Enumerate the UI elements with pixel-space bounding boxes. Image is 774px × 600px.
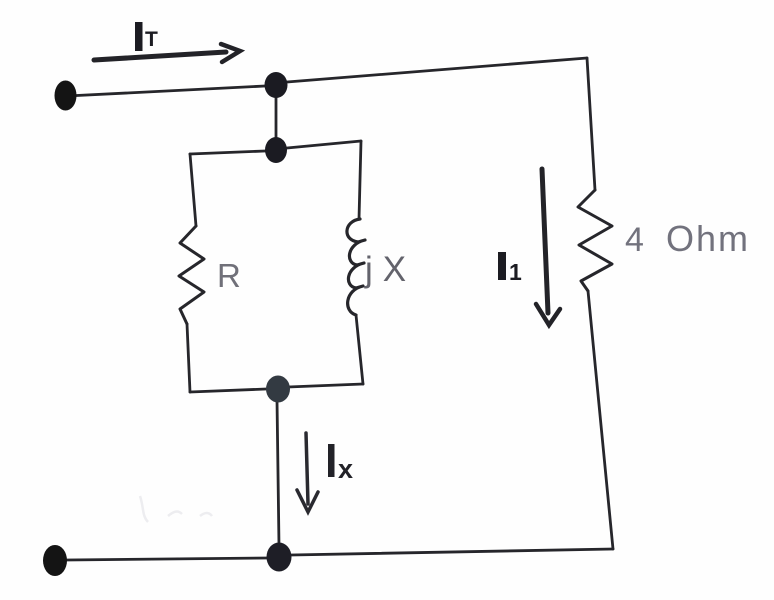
label IX [328, 444, 353, 484]
wire box right lower [356, 315, 363, 384]
arrow IX [297, 433, 318, 512]
svg-text:T: T [145, 28, 158, 51]
resistor 4 Ohm zigzag [578, 190, 612, 291]
inductor jX coil [347, 219, 365, 315]
wire right upper (corner down to 4 Ohm resistor) [587, 58, 595, 190]
wire bottom-right (corner to bottom junction) [291, 549, 613, 555]
wire box bottom edge left [190, 389, 266, 392]
wire right lower (resistor to bottom-right corner) [588, 291, 613, 549]
svg-text:x: x [338, 454, 353, 484]
wire box top edge right [287, 141, 361, 148]
faint scan smudge [140, 496, 212, 522]
wire stub (top junction down to node 2) [275, 96, 278, 140]
wire middle (box bottom node to bottom junction) [277, 400, 279, 546]
wire top-right (junction to top-right corner) [287, 58, 587, 82]
wire box right upper [359, 141, 361, 219]
svg-text:Ohm: Ohm [666, 218, 750, 259]
wire bottom-left (junction to bottom terminal) [67, 558, 267, 560]
svg-text:4: 4 [625, 221, 644, 259]
svg-text:R: R [217, 257, 241, 294]
label IT [135, 22, 158, 51]
label I1 [498, 252, 522, 285]
arrow I1 [536, 169, 560, 325]
node bottom junction [267, 543, 292, 572]
node 2 (box top) [265, 137, 287, 163]
wire box bottom edge right [288, 384, 363, 387]
arrow IT [94, 44, 240, 62]
wire top-left (terminal to top junction) [67, 86, 265, 96]
terminal dot left-bottom [43, 545, 67, 576]
terminal dot left-top [55, 81, 77, 111]
svg-text:1: 1 [509, 259, 522, 285]
resistor R zigzag [179, 226, 204, 324]
node top junction [265, 72, 288, 98]
wire box left upper [190, 154, 196, 226]
svg-text:jX: jX [364, 250, 416, 289]
wire box left lower [187, 324, 190, 392]
node box bottom [266, 376, 290, 403]
wire box top edge left [190, 151, 265, 154]
